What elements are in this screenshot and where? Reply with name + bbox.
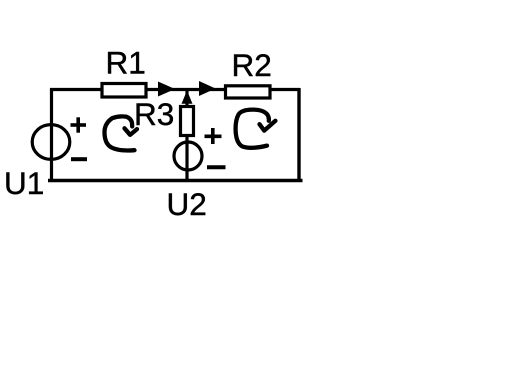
arrow on top wire (right, pointing right) bbox=[199, 81, 216, 96]
wire middle branch bbox=[185, 90, 188, 181]
arrow on top wire (left, pointing right) bbox=[158, 82, 175, 97]
resistor R3 bbox=[181, 107, 194, 136]
voltage source U2 bbox=[174, 142, 202, 170]
mesh current arrow loop 2 bbox=[236, 110, 276, 148]
wire left bbox=[50, 88, 53, 181]
minus sign U1 bbox=[71, 157, 87, 161]
svg-text:R2: R2 bbox=[232, 47, 272, 83]
arrow up at middle node bbox=[182, 91, 193, 104]
svg-text:R1: R1 bbox=[106, 44, 146, 80]
wire top bbox=[50, 88, 300, 91]
resistor R2 bbox=[226, 86, 271, 98]
svg-text:R3: R3 bbox=[134, 96, 174, 132]
wire right bbox=[297, 88, 300, 181]
resistor R1 bbox=[102, 84, 146, 98]
voltage source U1 bbox=[32, 125, 70, 160]
plus sign U1 bbox=[71, 117, 87, 132]
minus sign U2 bbox=[207, 165, 226, 169]
svg-text:U2: U2 bbox=[167, 186, 207, 222]
svg-text:U1: U1 bbox=[4, 165, 44, 201]
plus sign U2 bbox=[205, 128, 222, 144]
mesh current arrow loop 1 bbox=[105, 116, 138, 150]
wire bottom bbox=[48, 179, 303, 183]
